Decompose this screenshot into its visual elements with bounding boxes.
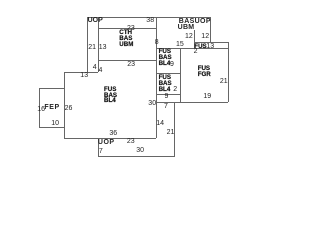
wall: small box divider y73 xyxy=(156,73,180,74)
dim 14 xyxy=(156,120,164,127)
label FUS FGR (garage) xyxy=(198,66,211,78)
dim 23 (CTH top) xyxy=(127,25,135,32)
dim 13 (CTH left) xyxy=(99,44,107,51)
dim 12 (first) xyxy=(185,33,193,40)
dim 36 xyxy=(109,130,117,137)
wall: far right edge xyxy=(228,42,229,102)
dim 7 (below y102) xyxy=(164,103,168,110)
wall: FGR bottom y102 xyxy=(156,102,228,103)
wall: center box left edge xyxy=(64,72,65,138)
dim 12 (second) xyxy=(201,33,209,40)
dim 38 (top) xyxy=(146,17,154,24)
label UBM (top right) xyxy=(178,24,195,31)
wall: bottom strip bottom y153 xyxy=(98,156,175,157)
dim 7 (bottom porch) xyxy=(99,148,103,155)
dim 15 xyxy=(176,41,184,48)
label FUS BAS BL4 (main house) xyxy=(104,87,117,104)
dim 9 (below small boxes) xyxy=(165,93,169,100)
dim 9 (upper small box) xyxy=(170,61,174,68)
dim 23 (CTH bottom) xyxy=(127,61,135,68)
dim 8 xyxy=(155,39,159,46)
label FEP xyxy=(44,104,59,111)
label FUS BAS BL4 (upper small box) xyxy=(159,49,172,67)
dim 13 (strip) xyxy=(206,43,214,50)
wall: FGR left edge xyxy=(180,48,181,102)
wall: long line y47 xyxy=(156,48,228,49)
label FUS BAS BL4 (lower small box) xyxy=(159,75,172,93)
dim 30 (bottom porch) xyxy=(136,147,144,154)
dim 13 (left jog) xyxy=(80,72,88,79)
wall: CTH box bottom xyxy=(98,60,156,61)
wall: center spine vertical x156 xyxy=(156,17,157,138)
label UOP (top porch) xyxy=(88,17,103,24)
wall: small box divider y94 xyxy=(156,94,180,95)
dim 4 (jog a) xyxy=(93,64,97,71)
dim 21 (garage) xyxy=(220,78,228,85)
dim 21 (left porch) xyxy=(88,44,96,51)
label FUS (strip) xyxy=(194,44,206,51)
dim 23 (bottom porch) xyxy=(127,138,135,145)
wall: FEP bottom xyxy=(39,127,64,128)
wall: FEP left xyxy=(39,88,40,127)
wall: FUS strip left xyxy=(194,30,195,48)
wall: FEP top xyxy=(39,88,64,89)
label BASUOP (top right) xyxy=(179,18,211,25)
wall: outer top edge xyxy=(87,17,210,18)
dim 30 (center right) xyxy=(148,100,156,107)
dim 19 (garage bottom) xyxy=(203,93,211,100)
wall: BASUOP right edge xyxy=(210,17,211,42)
wall: CTH box top xyxy=(98,28,156,29)
dim 26 (FEP right) xyxy=(65,105,73,112)
wall: inner porch edge xyxy=(98,17,99,72)
label UOP (bottom porch) xyxy=(98,139,115,146)
wall: center box bottom y138 xyxy=(64,138,156,139)
wall: FUS strip top xyxy=(194,42,228,43)
dim 4 (jog b) xyxy=(99,67,103,74)
wall: bottom strip left xyxy=(98,138,99,156)
wall: left jog y72 xyxy=(64,72,98,73)
dim 2 (lower small box) xyxy=(173,86,177,93)
dim 21 (bottom right) xyxy=(167,129,175,136)
wall: left edge of top porch xyxy=(87,17,88,72)
dim 16 (FEP left) xyxy=(37,106,45,113)
dim 2 (strip) xyxy=(194,48,198,55)
label CTH BAS UBM xyxy=(119,30,133,47)
dim 10 (FEP bottom) xyxy=(51,120,59,127)
wall: bottom right edge x174 xyxy=(174,102,175,157)
